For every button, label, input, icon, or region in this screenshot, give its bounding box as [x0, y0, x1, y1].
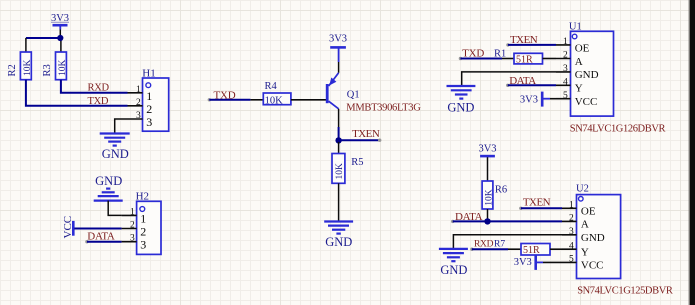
svg-text:GND: GND: [95, 174, 122, 188]
svg-text:OE: OE: [581, 205, 596, 217]
svg-text:51R: 51R: [523, 245, 540, 256]
right window edge: [690, 0, 695, 305]
svg-text:3: 3: [136, 111, 141, 121]
ground H1: [100, 134, 130, 162]
wire GND to H2 pin1: [108, 201, 121, 216]
wire RXD to R7: [472, 248, 508, 250]
svg-text:2: 2: [569, 214, 574, 224]
power port 3V3 (top-left): [51, 13, 69, 38]
svg-text:10K: 10K: [58, 60, 68, 77]
svg-text:2: 2: [130, 221, 135, 231]
ground U2: [439, 249, 468, 277]
svg-text:4: 4: [563, 78, 568, 88]
svg-text:2: 2: [146, 102, 152, 116]
svg-text:10K: 10K: [335, 163, 345, 180]
svg-text:GND: GND: [575, 69, 599, 81]
H1 pin 1 indicator: [146, 83, 151, 88]
node TXEN stub end: [378, 139, 381, 142]
node TXEN stub end (U1): [506, 43, 509, 46]
U2 pin 1 indicator: [579, 197, 584, 202]
svg-text:1: 1: [136, 85, 141, 95]
wire R4 to Q1 base: [291, 99, 326, 101]
svg-text:RXD: RXD: [88, 83, 110, 94]
svg-text:2: 2: [563, 51, 568, 61]
wire TXD to R1: [460, 58, 502, 60]
resistor R5: [332, 154, 363, 184]
power port 3V3 (R6): [478, 143, 496, 181]
svg-text:TXD: TXD: [88, 96, 109, 107]
svg-text:R3: R3: [42, 64, 53, 76]
wire H1 pin3 to GND: [115, 119, 128, 133]
Q1 emitter lead: [329, 73, 339, 86]
svg-text:3V3: 3V3: [329, 33, 347, 44]
svg-text:Y: Y: [575, 83, 583, 95]
svg-text:R7: R7: [494, 239, 505, 249]
junction dot 3V3 rail: [57, 35, 63, 41]
R4 body: [263, 93, 291, 105]
svg-text:3V3: 3V3: [514, 257, 532, 268]
svg-text:U2: U2: [576, 183, 589, 194]
power port 3V3 (middle): [329, 33, 347, 72]
svg-text:1: 1: [146, 89, 152, 103]
resistor R4: [263, 81, 291, 106]
svg-text:2: 2: [140, 225, 146, 239]
node TXD stub end (U1): [459, 57, 462, 60]
H2 body: [137, 201, 161, 254]
wire VCC to H2 pin2: [74, 228, 121, 230]
svg-text:Q1: Q1: [347, 90, 360, 101]
resistor R6: [482, 181, 507, 209]
resistor R1: [494, 48, 543, 65]
ground Q1/R5: [324, 222, 353, 250]
svg-text:51R: 51R: [516, 55, 533, 66]
U1 pins 1-5: [556, 45, 571, 99]
U2 body: [577, 195, 621, 279]
connector H2: [122, 190, 161, 254]
node RXD stub end (U2): [470, 248, 473, 251]
wire R1 to U1 pin2: [543, 58, 557, 60]
svg-text:DATA: DATA: [87, 230, 115, 242]
H1 body: [143, 78, 169, 131]
junction dot TXEN: [335, 137, 341, 143]
svg-text:RXD: RXD: [474, 239, 494, 249]
wire junction to R5: [338, 142, 340, 154]
svg-text:TXEN: TXEN: [352, 128, 380, 140]
node DATA stub end (U2): [451, 220, 454, 223]
wire 3V3 rail to R2/R3: [26, 37, 61, 39]
svg-text:3: 3: [563, 64, 568, 74]
svg-text:3: 3: [130, 234, 135, 244]
power port VCC: [62, 216, 74, 239]
IC U1: [556, 22, 614, 117]
svg-text:R2: R2: [7, 64, 18, 76]
wire R2 to TXD: [26, 80, 128, 106]
svg-text:OE: OE: [575, 42, 590, 54]
svg-text:VCC: VCC: [581, 260, 604, 272]
svg-text:GND: GND: [440, 263, 467, 277]
svg-text:GND: GND: [102, 147, 129, 161]
pin R4 left: [250, 99, 263, 101]
node DATA stub end (U1): [506, 84, 509, 87]
svg-text:10K: 10K: [484, 189, 494, 206]
IC U2: [562, 183, 621, 278]
ground H2 (pointing up): [94, 174, 123, 201]
wire R7 to U2 pin4: [550, 248, 562, 250]
junction dot DATA/R6: [484, 218, 490, 224]
svg-text:A: A: [575, 56, 583, 68]
svg-text:R5: R5: [351, 157, 363, 168]
svg-text:R6: R6: [495, 184, 507, 195]
svg-text:5: 5: [569, 255, 574, 265]
transistor Q1: [327, 73, 421, 114]
R1 body: [514, 53, 543, 64]
wire TXEN to U1 pin1: [508, 44, 556, 46]
svg-text:10K: 10K: [23, 60, 33, 77]
power port 3V3 (U2 pin5): [514, 255, 543, 270]
svg-text:4: 4: [569, 241, 574, 251]
power port 3V3 (U1 pin5): [520, 92, 550, 107]
svg-text:2: 2: [136, 98, 141, 108]
pin R7 left: [508, 248, 521, 250]
wire U1 pin3 to GND: [462, 72, 556, 85]
resistor R3: [42, 52, 68, 80]
svg-text:10K: 10K: [265, 96, 284, 107]
svg-text:TXEN: TXEN: [523, 196, 551, 208]
H2 pin 1 indicator: [140, 207, 145, 212]
svg-text:GND: GND: [447, 100, 474, 114]
wire DATA to U1 pin4: [508, 84, 556, 86]
svg-text:MMBT3906LT3G: MMBT3906LT3G: [346, 103, 421, 114]
svg-text:Y: Y: [581, 246, 589, 258]
svg-text:3: 3: [140, 238, 146, 252]
svg-text:R1: R1: [494, 48, 506, 59]
svg-text:GND: GND: [325, 235, 352, 249]
wire DATA to H2 pin3: [87, 241, 122, 243]
wire TXEN to U2 pin1: [521, 207, 562, 209]
wire Q1 collector down: [338, 109, 340, 127]
svg-text:R4: R4: [265, 81, 278, 92]
svg-text:1: 1: [563, 37, 568, 47]
svg-text:A: A: [581, 219, 589, 231]
wire R3 to RXD: [61, 80, 128, 93]
svg-text:GND: GND: [581, 232, 605, 244]
svg-text:3V3: 3V3: [478, 143, 496, 154]
connector H1: [128, 68, 169, 132]
wire R6 to DATA junction: [487, 209, 489, 221]
svg-text:5: 5: [563, 91, 568, 101]
svg-text:3: 3: [569, 227, 574, 237]
H2 pins 1-3: [122, 215, 137, 241]
resistor R2: [7, 52, 33, 80]
svg-text:SN74LVC1G126DBVR: SN74LVC1G126DBVR: [570, 124, 666, 135]
Q1 collector lead: [329, 101, 339, 109]
U2 pins 1-5: [562, 208, 577, 262]
svg-text:VCC: VCC: [575, 96, 598, 108]
U1 pin 1 indicator: [572, 34, 577, 39]
wire TXEN: [339, 139, 380, 141]
U1 body: [571, 31, 614, 116]
wire R5 to GND: [338, 183, 340, 220]
Q1 emitter arrow (PNP): [329, 78, 336, 86]
H1 pins 1-3: [128, 93, 143, 119]
wire U2 pin3 to GND: [453, 235, 562, 248]
svg-text:3: 3: [146, 115, 152, 129]
wire TXD to R4: [209, 99, 250, 101]
pin R1 left: [502, 58, 514, 60]
resistor R7: [521, 244, 550, 257]
wire 3V3 to U1 pin5: [550, 98, 556, 100]
svg-text:SN74LVC1G125DBVR: SN74LVC1G125DBVR: [577, 286, 673, 297]
node TXD stub end (middle): [208, 98, 211, 101]
Q1 base bar: [326, 84, 329, 103]
wire 3V3 to U2 pin5: [543, 261, 562, 263]
ground U1: [447, 86, 476, 114]
node DATA stub end: [85, 240, 88, 243]
svg-text:1: 1: [130, 207, 135, 217]
svg-text:1: 1: [140, 211, 146, 225]
svg-text:1: 1: [569, 201, 574, 211]
node TXEN stub end (U2): [519, 207, 522, 210]
wire DATA to U2 pin2: [453, 220, 562, 222]
svg-text:3V3: 3V3: [520, 95, 538, 106]
